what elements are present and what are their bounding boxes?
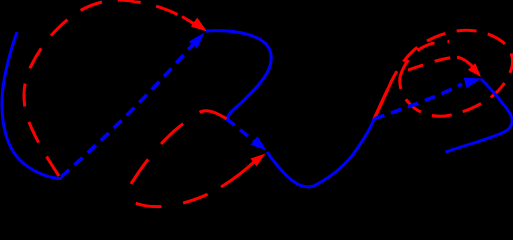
wire: red arrow shaft into node C	[457, 57, 473, 67]
node C: blue arrowhead	[464, 78, 482, 89]
wire: red dashed lens upper arc	[124, 111, 227, 196]
node A: red arrowhead	[191, 18, 207, 32]
wire: blue dashed right arrow	[374, 84, 462, 119]
node C: red arrowhead	[468, 63, 481, 77]
wire: red dashed big left arc	[24, 0, 185, 176]
wire: blue solid right hook	[446, 79, 513, 152]
wire: red dashed spiral inner arc	[400, 41, 449, 77]
wire: red dashed spiral innermost approach	[408, 57, 457, 70]
node B: red arrowhead	[251, 154, 266, 167]
wire: red dashed spiral outer loop	[388, 30, 513, 116]
wire: blue solid S-curve middle	[206, 31, 271, 119]
wire: red solid spiral start segment	[374, 89, 388, 119]
node B: blue arrowhead	[251, 136, 267, 150]
wire: blue dashed long diagonal arrow	[61, 41, 196, 177]
wire: red arrow shaft lens to node B	[221, 158, 258, 187]
wire: red arrow shaft into node A	[182, 17, 196, 26]
wire: blue dashed short middle arrow	[227, 119, 254, 141]
wire: blue solid bottom curve	[267, 119, 374, 187]
node A: blue arrowhead	[189, 33, 205, 49]
wire: blue solid curve left segment	[2, 32, 62, 179]
wire: red dashed lens lower arc	[124, 187, 221, 207]
